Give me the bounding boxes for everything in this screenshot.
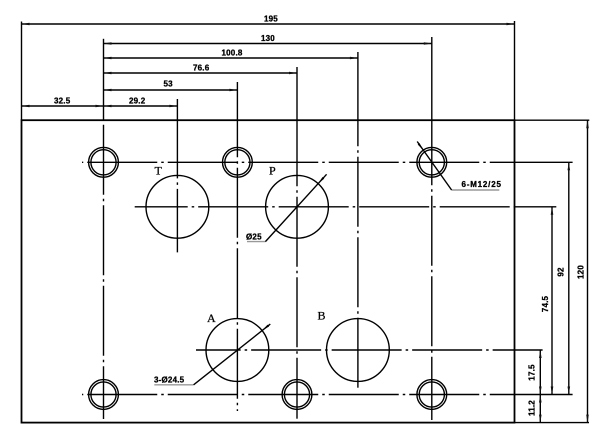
- dimension 32.5: [22, 105, 104, 108]
- svg-text:53: 53: [164, 80, 174, 89]
- port circle P: [266, 175, 329, 238]
- bolt hole bottom left: [89, 380, 119, 410]
- bolt hole top right: [417, 147, 447, 177]
- svg-text:P: P: [269, 164, 276, 178]
- dimension 76.6: [104, 72, 298, 75]
- svg-text:32.5: 32.5: [54, 97, 71, 106]
- dimension 74.5 vertical: [551, 207, 554, 395]
- bolt hole top left: [89, 147, 119, 177]
- svg-text:130: 130: [261, 34, 275, 43]
- centerline row A B: [196, 349, 515, 351]
- centerline row P T: [135, 206, 515, 208]
- extension line left edge above plate: [21, 22, 23, 121]
- port circle T: [146, 175, 209, 238]
- extension line top edge to right: [515, 119, 590, 121]
- port circle A: [206, 319, 269, 382]
- leader 6-M12: [417, 142, 499, 191]
- extension column B above plate: [357, 52, 359, 120]
- centerline row bottom bolts: [82, 394, 515, 396]
- bolt hole top middle: [223, 147, 253, 177]
- dimension 100.8: [104, 57, 358, 60]
- extension column P above plate: [296, 67, 298, 120]
- svg-text:6-M12/25: 6-M12/25: [462, 180, 502, 189]
- extension line right edge above plate: [514, 21, 516, 120]
- svg-text:76.6: 76.6: [193, 64, 210, 73]
- centerline row top bolts: [82, 161, 515, 163]
- leader 3xdiameter 24.5: [154, 324, 270, 385]
- plate outline: [22, 120, 515, 422]
- dimension 130: [104, 42, 432, 45]
- svg-text:120: 120: [577, 265, 586, 279]
- extension row top bolts right: [515, 161, 573, 163]
- svg-text:195: 195: [264, 15, 278, 24]
- svg-text:3-Ø24.5: 3-Ø24.5: [154, 376, 185, 385]
- extension column left bolts above plate: [103, 39, 105, 120]
- svg-text:100.8: 100.8: [222, 49, 243, 58]
- dimension 195: [22, 23, 515, 26]
- centerline column right bolts: [431, 120, 433, 420]
- svg-text:Ø25: Ø25: [246, 233, 262, 242]
- svg-text:17.5: 17.5: [528, 364, 537, 381]
- bolt hole bottom middle: [282, 380, 312, 410]
- dimension 17.5 vertical: [539, 350, 542, 395]
- svg-text:92: 92: [557, 267, 566, 277]
- extension row bottom bolts right: [515, 394, 573, 396]
- dimension 29.2: [104, 105, 178, 108]
- svg-text:B: B: [318, 309, 326, 323]
- extension column A above plate: [236, 82, 238, 120]
- extension column T above plate: [176, 99, 178, 120]
- dimension 53: [104, 89, 238, 92]
- port circle B: [327, 319, 390, 382]
- dimension 92 vertical: [568, 162, 571, 394]
- centerline column P: [296, 120, 298, 419]
- svg-text:74.5: 74.5: [541, 295, 550, 312]
- leader diameter 25: [247, 174, 327, 241]
- dimension 11.2 vertical: [539, 395, 542, 423]
- dimension 120 vertical: [586, 120, 589, 422]
- svg-text:11.2: 11.2: [528, 400, 537, 416]
- extension column right bolts above plate: [431, 37, 433, 120]
- svg-text:29.2: 29.2: [129, 97, 146, 106]
- extension line bottom edge to right: [515, 422, 590, 424]
- bolt hole bottom right: [417, 380, 447, 410]
- centerline column left bolts: [103, 120, 105, 419]
- centerline column T: [176, 120, 178, 252]
- centerline column B: [357, 120, 359, 388]
- svg-text:A: A: [207, 311, 216, 325]
- centerline column A: [236, 120, 238, 411]
- extension row A B right: [515, 349, 543, 351]
- extension row P T right: [515, 206, 557, 208]
- svg-text:T: T: [155, 164, 163, 178]
